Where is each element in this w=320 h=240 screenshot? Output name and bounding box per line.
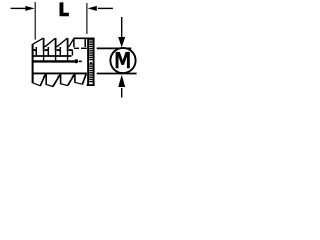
top tooth root 3 (68, 46, 70, 48)
dimension M up arrow (121, 88, 123, 98)
wire: near-flange bore dashes y48.3 (74, 47, 87, 49)
screw bar ball end (74, 59, 78, 63)
dimension L extension line right (86, 3, 88, 34)
top tooth root 2 (56, 46, 58, 48)
flange left bar (87, 38, 89, 86)
flange thread ladder (89, 40, 93, 82)
bottom tooth C (60, 73, 62, 83)
wire: inner bore line y56 (33, 55, 72, 57)
insert left face (32, 44, 34, 83)
top tooth 4 vertical edge (73, 38, 75, 47)
M circle (110, 48, 135, 73)
axis mark in flange (90, 62, 92, 64)
dimension L extension line left (34, 2, 36, 40)
top tooth 4 hypotenuse (69, 38, 74, 46)
wire: bore line y50 dashes (32, 49, 73, 51)
wire: internal thread stubs (36, 47, 60, 55)
bottom tooth D (74, 73, 76, 82)
flange bottom edge (87, 84, 95, 86)
top tooth 2 (45, 38, 55, 47)
flange right bar (93, 38, 95, 86)
label L (60, 2, 69, 16)
central screw bar (33, 60, 74, 62)
bottom far-side root dashes (43, 75, 74, 77)
dimension L arrow left (11, 7, 26, 9)
dimension M extension line top (97, 47, 132, 49)
dimension M down arrow (121, 17, 123, 38)
dimension M extension line bottom (97, 73, 137, 75)
bottom tooth A (32, 73, 34, 83)
body bottom line (33, 72, 87, 74)
axis centerline dash (79, 60, 82, 62)
label M (116, 52, 130, 68)
bottom tooth B (45, 73, 47, 84)
top tooth 1 (32, 38, 44, 45)
body right face top (84, 38, 86, 47)
dimension L arrow right (98, 7, 113, 9)
top tooth root 1 (44, 46, 46, 48)
top tooth 3 (57, 38, 67, 47)
body flat top line (74, 37, 95, 39)
